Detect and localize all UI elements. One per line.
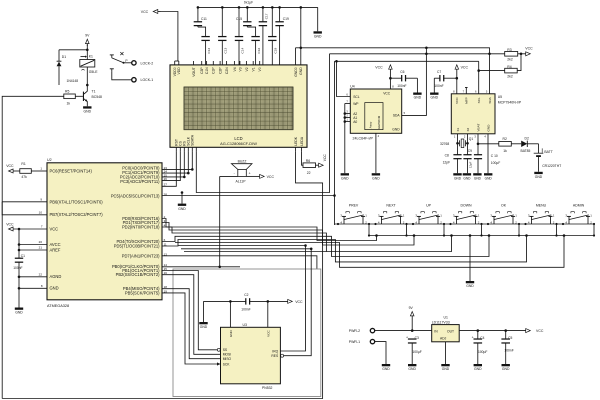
svg-text:R5: R5 bbox=[65, 89, 69, 93]
svg-text:VCC: VCC bbox=[536, 329, 544, 333]
U4 pin labels bbox=[346, 85, 405, 138]
svg-text:GND: GND bbox=[200, 325, 208, 329]
ground C6 bbox=[413, 78, 422, 100]
svg-text:VCC: VCC bbox=[461, 66, 469, 70]
svg-text:GND: GND bbox=[454, 176, 462, 180]
svg-text:+: + bbox=[472, 336, 474, 340]
capacitor C2 100nF bbox=[204, 293, 288, 311]
buzzer BUZZ AL11P bbox=[231, 160, 252, 184]
capacitor C9 12pF bbox=[463, 142, 472, 173]
power 9V arrow (relay supply) bbox=[85, 34, 90, 47]
svg-text:VDD: VDD bbox=[177, 67, 181, 75]
svg-text:GND: GND bbox=[229, 330, 233, 338]
svg-text:GND: GND bbox=[535, 175, 543, 179]
svg-text:C1N: C1N bbox=[205, 67, 209, 74]
wire upper parallel line bbox=[301, 47, 490, 54]
svg-text:U2: U2 bbox=[47, 158, 52, 162]
svg-text:22: 22 bbox=[307, 171, 311, 175]
svg-text:R1: R1 bbox=[21, 162, 25, 166]
node C2 junctions bbox=[229, 300, 269, 303]
svg-text:C15: C15 bbox=[236, 17, 242, 21]
svg-text:PC5(ADC5/SCL/PCINT13): PC5(ADC5/SCL/PCINT13) bbox=[111, 193, 160, 198]
diode D2 BAT85 bbox=[511, 136, 538, 153]
svg-text:C2N: C2N bbox=[225, 67, 229, 74]
wire VCC to LCD VDD pins bbox=[161, 12, 179, 65]
svg-text:C4: C4 bbox=[480, 336, 484, 340]
svg-text:GND: GND bbox=[408, 367, 416, 371]
svg-text:LOCK-1: LOCK-1 bbox=[141, 78, 154, 82]
connector LOCK-1 bbox=[132, 78, 153, 83]
svg-text:MENU: MENU bbox=[536, 204, 547, 208]
connector LOCK-2 bbox=[132, 61, 153, 66]
module outline PN532 board bbox=[173, 269, 321, 397]
svg-text:C8: C8 bbox=[445, 154, 449, 158]
wire U4 VCC pin bbox=[389, 78, 391, 89]
svg-text:VBAT: VBAT bbox=[476, 124, 480, 132]
wire PWR-2 to regulator bbox=[375, 330, 432, 332]
svg-text:12pF: 12pF bbox=[469, 161, 473, 168]
svg-text:SDATA: SDATA bbox=[191, 134, 195, 146]
wire button lower rail bbox=[369, 235, 594, 237]
svg-text:ATMEGA328: ATMEGA328 bbox=[47, 304, 69, 308]
capacitor C1 100nF bbox=[13, 254, 25, 307]
svg-text:100nF: 100nF bbox=[397, 84, 406, 88]
wire PB0 row to buzzer bbox=[162, 266, 240, 268]
switch MENU bbox=[528, 204, 555, 225]
wire IRQ net row bbox=[178, 245, 306, 247]
ground C10 bbox=[473, 173, 481, 180]
ground below T1 bbox=[83, 106, 92, 113]
svg-text:GND: GND bbox=[486, 124, 490, 132]
relay fixed contact lower bbox=[110, 69, 114, 72]
svg-text:G5LE: G5LE bbox=[89, 70, 98, 74]
wire button feed from pin row y=218.5 bbox=[162, 219, 378, 241]
svg-text:SCL: SCL bbox=[353, 95, 360, 99]
wire LCD SCLK to PC1 bbox=[162, 151, 190, 174]
wire RES net row bbox=[181, 248, 311, 250]
resistor R3 2k2 bbox=[505, 48, 518, 62]
wire SDA drop to U4 bbox=[402, 48, 427, 116]
svg-text:100µF: 100µF bbox=[412, 350, 421, 354]
switch UP bbox=[415, 204, 442, 225]
wire top ground rail bbox=[198, 6, 318, 8]
capacitor C7 100nF bbox=[434, 70, 457, 88]
wire button feed from pin row y=246 bbox=[162, 234, 528, 262]
wire SCL bus bbox=[162, 61, 336, 225]
svg-text:GND: GND bbox=[178, 207, 186, 211]
wire VCC to relay 9V rail bbox=[59, 45, 87, 60]
svg-text:V3: V3 bbox=[238, 67, 242, 71]
wire PB4 to MISO bbox=[162, 289, 221, 359]
svg-text:2k2: 2k2 bbox=[507, 58, 513, 62]
svg-text:A0: A0 bbox=[353, 120, 357, 124]
svg-text:VOUT: VOUT bbox=[192, 67, 196, 76]
capacitor C19 1uF bbox=[275, 6, 289, 65]
svg-text:+: + bbox=[406, 336, 408, 340]
wire PWR-1 to ground bbox=[375, 342, 386, 364]
ground U5 GND pin bbox=[484, 134, 492, 181]
svg-text:LOCK-2: LOCK-2 bbox=[141, 61, 154, 65]
svg-text:SDA: SDA bbox=[393, 114, 401, 118]
svg-text:C2P: C2P bbox=[219, 67, 223, 74]
svg-text:1N4148: 1N4148 bbox=[67, 79, 79, 83]
transistor T1 BC548 bbox=[75, 86, 102, 107]
svg-text:VCC: VCC bbox=[141, 10, 149, 14]
svg-text:GND: GND bbox=[372, 176, 380, 180]
diode D1 1N4148 bbox=[57, 50, 79, 85]
svg-text:K1: K1 bbox=[89, 54, 93, 58]
svg-text:C3: C3 bbox=[415, 336, 419, 340]
svg-text:EEPROM: EEPROM bbox=[377, 115, 381, 129]
svg-text:U4: U4 bbox=[350, 84, 354, 88]
svg-text:AREF: AREF bbox=[50, 247, 61, 252]
svg-text:C1P: C1P bbox=[212, 67, 216, 74]
svg-text:C7: C7 bbox=[437, 70, 441, 74]
svg-text:V4: V4 bbox=[233, 67, 237, 71]
connector PWR-2 bbox=[349, 328, 375, 333]
svg-text:GND: GND bbox=[341, 176, 349, 180]
label 9x1uF bbox=[244, 1, 253, 5]
connector PWR-1 bbox=[349, 339, 375, 344]
svg-text:C2: C2 bbox=[244, 293, 248, 297]
wire pivot to LOCK-2 bbox=[124, 62, 132, 64]
wire PB1 to SS bbox=[162, 271, 220, 352]
wire PB5 to SCK bbox=[162, 293, 221, 366]
svg-text:GND: GND bbox=[502, 367, 510, 371]
wire spare net row bbox=[184, 251, 326, 253]
wire VBAT net bbox=[477, 134, 499, 155]
ground C3 bbox=[408, 364, 417, 371]
node SCL to U5 junction bbox=[477, 69, 480, 72]
svg-text:Assy: Assy bbox=[369, 121, 373, 128]
svg-text:BC548: BC548 bbox=[92, 95, 102, 99]
power VCC arrow output bbox=[526, 329, 544, 333]
svg-text:ADJ: ADJ bbox=[440, 337, 447, 341]
power VCC arrow buzzer bbox=[260, 174, 275, 178]
ground C8 bbox=[453, 173, 461, 180]
ground C4 bbox=[474, 364, 483, 371]
wire button feed from pin row y=241.5 bbox=[162, 234, 490, 256]
svg-text:U5: U5 bbox=[498, 95, 502, 99]
capacitor C11 1uF bbox=[194, 6, 207, 27]
node relay top junction bbox=[86, 49, 89, 52]
svg-text:C9: C9 bbox=[468, 149, 472, 153]
IC U2 ATMEGA328 body bbox=[47, 158, 162, 308]
wire relay coil to collector bbox=[86, 67, 88, 86]
svg-text:GND: GND bbox=[474, 367, 482, 371]
svg-text:C17: C17 bbox=[264, 13, 268, 19]
svg-text:R4: R4 bbox=[507, 65, 511, 69]
svg-text:10: 10 bbox=[39, 210, 43, 214]
svg-text:PD5(T1/OC0B/PCINT21): PD5(T1/OC0B/PCINT21) bbox=[114, 243, 160, 248]
svg-text:PD7(AIN1/PCINT23): PD7(AIN1/PCINT23) bbox=[122, 253, 160, 258]
resistor R5 1k bbox=[64, 89, 76, 105]
svg-text:GND: GND bbox=[466, 284, 474, 288]
svg-text:SCL: SCL bbox=[477, 97, 481, 103]
svg-text:MCP7940N-I/P: MCP7940N-I/P bbox=[498, 101, 522, 105]
svg-text:MOSI: MOSI bbox=[223, 353, 232, 357]
switch ADMIN bbox=[565, 204, 592, 225]
wire LCD SDATA2 to PC0 bbox=[162, 151, 194, 170]
svg-text:SCK: SCK bbox=[223, 362, 231, 366]
svg-text:CR1220THT: CR1220THT bbox=[542, 164, 561, 168]
capacitor C3 100uF bbox=[406, 336, 422, 364]
svg-text:LD1117V33: LD1117V33 bbox=[432, 320, 450, 324]
resistor R4 2k2 bbox=[479, 65, 518, 79]
svg-text:GND: GND bbox=[485, 176, 493, 180]
capacitor C8 12pF bbox=[443, 142, 462, 173]
svg-text:20: 20 bbox=[39, 240, 43, 244]
svg-text:GND: GND bbox=[84, 110, 92, 114]
wire button feed from pin row y=222.5 bbox=[162, 223, 415, 246]
power VCC arrow backlight bbox=[316, 154, 328, 168]
svg-text:PWR-2: PWR-2 bbox=[349, 329, 360, 333]
wire R5 to left edge and XTAL1 pin bbox=[2, 96, 64, 398]
svg-text:RES: RES bbox=[271, 354, 279, 358]
svg-text:GND: GND bbox=[314, 35, 322, 39]
U5 pin labels bbox=[453, 90, 492, 139]
svg-text:AL11P: AL11P bbox=[236, 180, 247, 184]
ground top right bbox=[314, 7, 323, 38]
capacitor C5 100nF bbox=[501, 331, 513, 364]
svg-text:1k: 1k bbox=[503, 149, 507, 153]
U3 pin labels bbox=[223, 330, 279, 367]
power VCC arrow U5 bbox=[455, 65, 468, 94]
svg-text:-: - bbox=[234, 172, 235, 176]
svg-text:22: 22 bbox=[39, 272, 43, 276]
svg-text:C14: C14 bbox=[240, 48, 244, 54]
svg-text:AVCC: AVCC bbox=[50, 242, 61, 247]
svg-text:ADMIN: ADMIN bbox=[573, 204, 585, 208]
svg-text:D2: D2 bbox=[525, 136, 529, 140]
svg-text:C5: C5 bbox=[508, 336, 512, 340]
wire AVCC branch bbox=[18, 243, 47, 246]
wire ADJ to ground bbox=[445, 342, 447, 364]
ground C7 bbox=[430, 78, 439, 100]
U2 left pin labels bbox=[50, 168, 104, 290]
resistor R2 1k bbox=[499, 137, 512, 153]
svg-text:C18: C18 bbox=[274, 48, 278, 54]
svg-text:D1: D1 bbox=[62, 55, 66, 59]
ground LCD interface bbox=[178, 191, 187, 211]
svg-text:LEDK: LEDK bbox=[294, 136, 298, 146]
resistor R6 22 bbox=[303, 159, 316, 175]
svg-text:+: + bbox=[249, 172, 251, 176]
svg-text:AG-C128066CF-DIW: AG-C128066CF-DIW bbox=[220, 141, 257, 146]
svg-text:OUT: OUT bbox=[447, 329, 454, 333]
battery BATT CR1220THT bbox=[534, 144, 562, 172]
relay contact armature bbox=[112, 58, 129, 64]
wire regulator output bbox=[459, 329, 525, 332]
wire VCC rail down bbox=[18, 229, 20, 258]
wire R1 to RESET pin bbox=[31, 170, 47, 172]
svg-text:PREV: PREV bbox=[349, 204, 359, 208]
capacitor C6 100nF bbox=[390, 70, 417, 88]
svg-text:100µF: 100µF bbox=[491, 161, 500, 165]
power VCC arrow U4 bbox=[375, 65, 392, 80]
wire left edge to XTAL2 pin bbox=[2, 202, 47, 215]
svg-text:MFP: MFP bbox=[465, 97, 469, 104]
ground U4 GND pin bbox=[372, 133, 381, 180]
svg-text:9V: 9V bbox=[409, 306, 414, 310]
capacitor C18 1uF bbox=[268, 6, 278, 65]
ground C2 bbox=[199, 301, 208, 329]
svg-text:PB2(SS/OC1B/PCINT2): PB2(SS/OC1B/PCINT2) bbox=[116, 272, 161, 277]
wire button column drops bbox=[368, 224, 595, 237]
switch OK bbox=[490, 204, 517, 225]
ground buttons bbox=[466, 234, 475, 288]
wire AREF branch bbox=[18, 249, 47, 252]
wire SCL drop to U4 bbox=[337, 61, 351, 96]
svg-text:GND0: GND0 bbox=[294, 67, 298, 77]
svg-text:PB5(SCK/PCINT5): PB5(SCK/PCINT5) bbox=[125, 290, 160, 295]
wire button common rail bbox=[335, 223, 596, 225]
power VCC arrow top left bbox=[141, 10, 161, 14]
wire U3 VCC pin bbox=[267, 301, 269, 327]
svg-text:21: 21 bbox=[39, 246, 43, 250]
svg-text:GND: GND bbox=[299, 67, 303, 75]
wire SDA drop to U5 bbox=[489, 54, 491, 94]
wire buzzer minus lead bbox=[218, 176, 237, 268]
svg-text:9V: 9V bbox=[85, 34, 90, 38]
svg-text:PC6(RESET/PCINT14): PC6(RESET/PCINT14) bbox=[50, 168, 93, 173]
svg-text:BATT: BATT bbox=[544, 150, 552, 154]
svg-text:GND: GND bbox=[474, 176, 482, 180]
capacitor C4 100uF bbox=[472, 331, 488, 364]
svg-text:47k: 47k bbox=[21, 175, 27, 179]
svg-text:VCC: VCC bbox=[6, 164, 14, 168]
capacitor C17 1uF bbox=[259, 6, 269, 65]
svg-text:V1: V1 bbox=[252, 67, 256, 71]
U5 MFP stub bbox=[465, 88, 468, 94]
svg-text:VCC: VCC bbox=[6, 222, 14, 226]
svg-text:PWR-1: PWR-1 bbox=[349, 340, 360, 344]
svg-text:LEDA: LEDA bbox=[300, 136, 304, 146]
svg-text:V0: V0 bbox=[258, 67, 262, 71]
wire U3 GND pin bbox=[229, 301, 231, 327]
wire SCL drop to U5 bbox=[478, 61, 480, 94]
wire PD7 row bbox=[162, 256, 317, 269]
power 9V arrow input bbox=[409, 306, 414, 332]
svg-text:V2: V2 bbox=[245, 67, 249, 71]
ground U2 left rail bbox=[15, 308, 24, 315]
wire LCD CS to PC3 bbox=[162, 151, 180, 180]
svg-text:C1: C1 bbox=[21, 254, 25, 258]
svg-text:GND: GND bbox=[15, 311, 23, 315]
wire button feed from pin row y=227 bbox=[162, 227, 453, 252]
wire SCL rail bbox=[335, 60, 479, 62]
wire LEDA to R6 bbox=[302, 151, 304, 165]
svg-text:C13: C13 bbox=[224, 48, 228, 54]
svg-text:MISO: MISO bbox=[223, 357, 232, 361]
node SDA to U5 junction bbox=[488, 53, 491, 56]
svg-text:1k: 1k bbox=[67, 101, 71, 105]
svg-text:U1: U1 bbox=[444, 315, 448, 319]
svg-text:C11: C11 bbox=[201, 17, 207, 21]
svg-text:GND: GND bbox=[392, 128, 400, 132]
LCD bottom pin labels bbox=[175, 134, 304, 146]
svg-text:PD2(INT0/PCINT18): PD2(INT0/PCINT18) bbox=[122, 224, 160, 229]
svg-text:GND: GND bbox=[442, 367, 450, 371]
svg-text:C19: C19 bbox=[283, 17, 289, 21]
node SDA to U4 junction bbox=[425, 53, 428, 56]
capacitor C15 1uF bbox=[236, 6, 252, 27]
svg-text:OK: OK bbox=[501, 204, 507, 208]
contact unused x-mark bbox=[120, 52, 123, 55]
svg-text:100nF: 100nF bbox=[13, 266, 22, 270]
ground U1 ADJ bbox=[441, 364, 450, 371]
node SCL to U4 junction bbox=[335, 60, 338, 63]
U2 right pin numbers bbox=[164, 166, 168, 293]
ground C5 bbox=[502, 364, 511, 371]
svg-text:PN532: PN532 bbox=[262, 386, 272, 390]
ground PWR-1 bbox=[382, 364, 391, 371]
crystal Q1 32768 bbox=[440, 134, 473, 148]
node VCC rail junction bbox=[18, 228, 21, 231]
svg-text:UP: UP bbox=[426, 204, 432, 208]
power VCC arrow U2 supply bbox=[6, 222, 47, 231]
svg-text:VCC: VCC bbox=[295, 300, 303, 304]
switch PREV bbox=[340, 204, 367, 225]
switch NEXT bbox=[378, 204, 405, 225]
IC U5 MCP7940N-I/P body bbox=[451, 94, 522, 134]
U4 address pins to ground bbox=[341, 104, 351, 181]
power VCC arrow reset pullup bbox=[6, 164, 20, 173]
svg-text:U3: U3 bbox=[243, 323, 247, 327]
power VCC arrow pullups bbox=[525, 46, 533, 55]
wire buzzer plus to VCC bbox=[246, 175, 259, 177]
svg-text:T1: T1 bbox=[92, 90, 96, 94]
svg-text:VCC: VCC bbox=[383, 91, 391, 95]
svg-text:C16: C16 bbox=[257, 48, 261, 54]
svg-text:100µF: 100µF bbox=[478, 350, 487, 354]
wire IRQ up bbox=[280, 244, 306, 351]
svg-text:DOWN: DOWN bbox=[460, 204, 472, 208]
wire lower contact to LOCK-1 bbox=[112, 72, 132, 80]
svg-text:12pF: 12pF bbox=[443, 160, 451, 164]
wire SDA rail top bbox=[330, 53, 505, 55]
ground battery bbox=[534, 172, 543, 179]
capacitor C13 1uF bbox=[218, 6, 228, 65]
regulator U1 LD1117V33 bbox=[432, 315, 460, 342]
wire LCD RST to pin27 bbox=[162, 151, 176, 186]
LCD module AG-C128066CF-DIW bbox=[170, 65, 307, 147]
svg-text:GND: GND bbox=[382, 367, 390, 371]
wire pullups to VCC bbox=[517, 53, 525, 71]
relay fixed contact upper bbox=[110, 55, 114, 58]
svg-text:IRQ: IRQ bbox=[272, 349, 278, 353]
capacitor C16 1uF bbox=[247, 27, 261, 65]
svg-text:PB6(XTAL1/TOSC1/PCINT6): PB6(XTAL1/TOSC1/PCINT6) bbox=[50, 199, 104, 204]
wire SDA bus bbox=[196, 54, 329, 193]
svg-text:NEXT: NEXT bbox=[386, 204, 396, 208]
svg-text:WP: WP bbox=[353, 102, 359, 106]
U2 left pin numbers bbox=[39, 167, 43, 288]
svg-text:GND: GND bbox=[50, 286, 59, 291]
svg-text:100nF: 100nF bbox=[241, 308, 250, 312]
LCD bottom pin stubs bbox=[176, 147, 301, 151]
svg-text:X2: X2 bbox=[466, 127, 470, 131]
U2 right pin labels bbox=[111, 166, 160, 296]
svg-text:2k2: 2k2 bbox=[507, 74, 513, 78]
wire ADMIN feed row bbox=[175, 234, 565, 267]
wire AGND branch bbox=[18, 276, 47, 279]
ground C9 bbox=[463, 173, 471, 180]
capacitor C14 1uF bbox=[235, 6, 245, 65]
LCD top pin labels bbox=[173, 67, 303, 77]
svg-text:SDA: SDA bbox=[488, 96, 492, 103]
svg-text:X1: X1 bbox=[456, 127, 460, 131]
